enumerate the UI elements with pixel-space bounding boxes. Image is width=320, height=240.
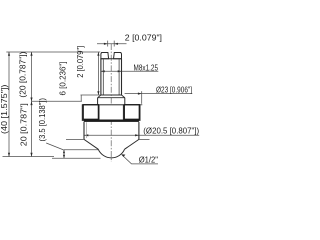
cone chamfer left xyxy=(84,139,98,149)
dome arc xyxy=(98,149,124,158)
wire: top surface extension line xyxy=(6,51,100,53)
svg-text:(Ø20.5 [0.807"]): (Ø20.5 [0.807"]) xyxy=(143,126,199,136)
svg-text:Ø23 [0.906"]: Ø23 [0.906"] xyxy=(156,85,192,95)
dimension (3.5 [0.138"]) xyxy=(46,143,100,158)
wire: mid extension line (20/20 split) xyxy=(32,100,82,102)
hex face line right xyxy=(122,105,124,121)
dimension Ø1/2" leader xyxy=(122,155,158,164)
neck sides xyxy=(97,98,99,105)
centerline xyxy=(110,44,112,162)
thread end line xyxy=(101,94,122,96)
svg-text:2 [0.079"]: 2 [0.079"] xyxy=(125,32,162,42)
neck top line xyxy=(98,97,125,99)
disc inner faint line xyxy=(86,122,88,138)
svg-text:M8x1.25: M8x1.25 xyxy=(134,62,159,72)
thread minor lines xyxy=(102,59,104,94)
svg-text:6 [0.236"]: 6 [0.236"] xyxy=(58,62,68,96)
svg-text:(3.5 [0.138"]): (3.5 [0.138"]) xyxy=(37,98,47,142)
dimension 2 [0.079"] top (slot width) xyxy=(97,41,127,47)
slotted stud tip left block xyxy=(101,53,109,59)
dimension M8x1.25 xyxy=(101,70,158,72)
chamfer stud to neck xyxy=(98,95,101,98)
dimension (Ø20.5 [0.807"]) xyxy=(85,134,200,136)
svg-text:Ø1/2": Ø1/2" xyxy=(139,154,158,164)
wire: bottom extension line for 40/20 dims xyxy=(3,156,55,158)
dimension 2 [0.079"] left vertical xyxy=(97,52,99,95)
hex bottom thick band xyxy=(84,120,139,122)
dimension (40 [1.575"]) xyxy=(8,52,10,157)
wire: disc corner extension right xyxy=(139,138,150,140)
hex right outer face accent xyxy=(124,105,139,120)
shoulder line xyxy=(100,58,122,60)
dimension Ø23 [0.906"] xyxy=(125,91,193,104)
dimension (20 [0.787"]) top xyxy=(31,52,33,157)
wire: thread-end extension line left xyxy=(81,94,101,96)
hex body outline xyxy=(82,105,140,121)
disc sides xyxy=(83,122,85,139)
svg-text:2 [0.079"]: 2 [0.079"] xyxy=(75,46,85,78)
wire: disc corner extension left xyxy=(66,138,84,140)
hex face line left xyxy=(98,105,100,121)
dimension 20 [0.787"] bottom xyxy=(30,101,32,105)
slotted stud tip right block xyxy=(114,53,122,59)
hex left outer face accent xyxy=(83,105,98,120)
svg-text:(20 [0.787"]): (20 [0.787"]) xyxy=(17,51,27,97)
svg-text:(40 [1.575"]): (40 [1.575"]) xyxy=(0,84,9,134)
stud body sides xyxy=(100,59,102,95)
cone chamfer right xyxy=(125,139,139,149)
svg-text:20 [0.787"]: 20 [0.787"] xyxy=(19,103,29,146)
wire: vertical connector x81 xyxy=(80,95,82,101)
